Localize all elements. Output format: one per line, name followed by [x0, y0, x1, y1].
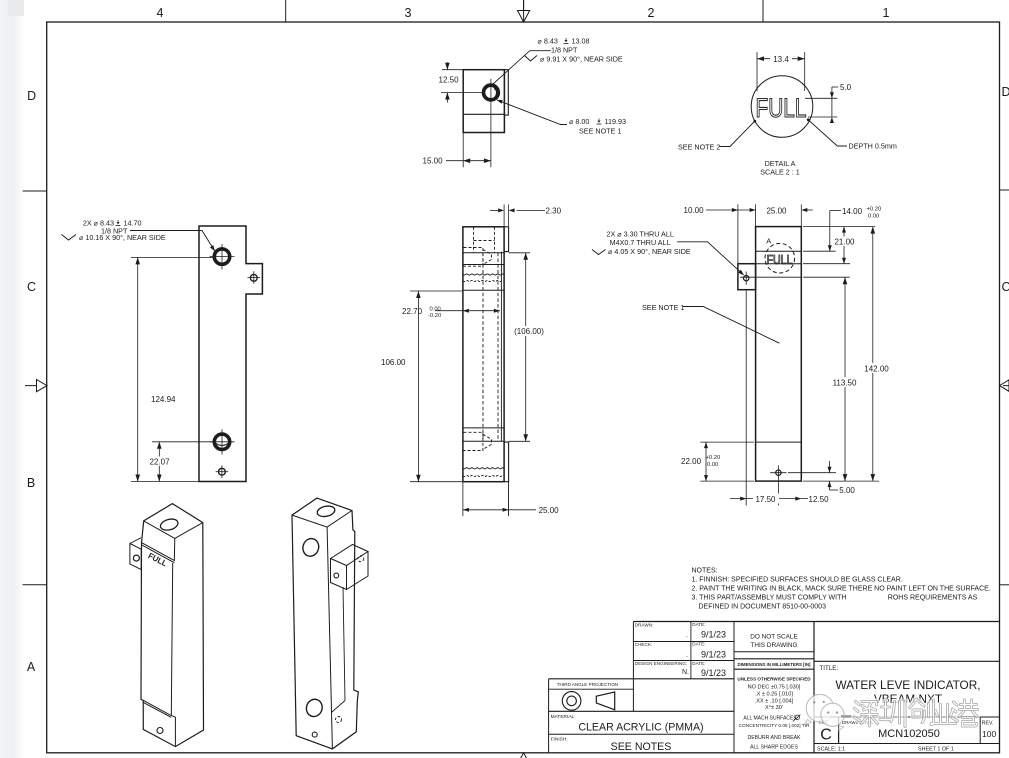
zone separator ticks left [23, 190, 47, 192]
svg-text:N.: N. [682, 669, 689, 676]
svg-text:9/1/23: 9/1/23 [701, 668, 726, 678]
svg-text:.XX ± .10 [.004]: .XX ± .10 [.004] [755, 698, 794, 704]
right view tab outline [738, 264, 756, 290]
svg-text:DATE:: DATE: [692, 641, 705, 646]
svg-text:100: 100 [982, 729, 996, 739]
svg-text:ALL SHARP EDGES: ALL SHARP EDGES [750, 745, 798, 751]
isometric view 1 window bottom edge [143, 700, 171, 715]
front view NPT hole bottom [214, 434, 229, 449]
svg-text:3: 3 [405, 6, 412, 20]
svg-text:1/8 NPT: 1/8 NPT [551, 46, 578, 55]
right view window bottom line [756, 441, 802, 443]
svg-text:MCN102050: MCN102050 [878, 728, 940, 740]
svg-text:⌀ 8.43: ⌀ 8.43 [538, 37, 558, 46]
title area lines [814, 660, 1000, 662]
watermark bubble eyes [813, 701, 815, 703]
zone separator ticks right [1000, 189, 1009, 191]
dimension 22.07 front view [152, 441, 213, 443]
isometric view 2 top face edges [292, 511, 352, 528]
right view recess top line [756, 250, 802, 252]
svg-text:DEFINED IN DOCUMENT 8510-00-00: DEFINED IN DOCUMENT 8510-00-0003 [699, 603, 827, 610]
title block row lines left [690, 622, 692, 679]
svg-text:2: 2 [648, 6, 655, 20]
svg-text:124.94: 124.94 [151, 395, 176, 404]
svg-text:1. FINNISH: SPECIFIED SURFACES: 1. FINNISH: SPECIFIED SURFACES SHOULD BE… [692, 576, 903, 583]
third angle projection circles symbol [562, 692, 581, 711]
svg-text:DESIGN ENGINEERING:: DESIGN ENGINEERING: [635, 661, 687, 666]
svg-text:X°± 30': X°± 30' [765, 705, 783, 711]
section view thread band bottom [463, 468, 504, 469]
svg-text:CHECK:: CHECK: [635, 642, 652, 647]
svg-text:+0.20: +0.20 [867, 206, 882, 212]
isometric view 1 side tab [130, 544, 141, 570]
section view hidden NPT cone top [464, 248, 483, 267]
dimension 113.50 right view [803, 276, 850, 278]
svg-text:M4X0.7 THRU ALL: M4X0.7 THRU ALL [610, 238, 671, 247]
svg-text:UNLESS OTHERWISE SPECIFIED: UNLESS OTHERWISE SPECIFIED [737, 676, 811, 681]
svg-text:22.00: 22.00 [681, 457, 702, 466]
countersink symbol top view [525, 56, 538, 62]
svg-text:CLEAR ACRYLIC (PMMA): CLEAR ACRYLIC (PMMA) [578, 722, 703, 734]
svg-text:21.00: 21.00 [834, 238, 855, 247]
svg-text:D: D [27, 89, 36, 103]
svg-text:TITLE:: TITLE: [820, 665, 839, 672]
svg-text:REV.: REV. [982, 721, 994, 727]
right view recess second line [756, 263, 802, 265]
front view small hole bottom [219, 468, 226, 475]
svg-text:SHEET 1 OF 1: SHEET 1 OF 1 [918, 746, 954, 752]
right view outline [756, 227, 802, 482]
svg-text:SEE NOTE 2: SEE NOTE 2 [678, 143, 720, 152]
section view window bottom edge [463, 440, 504, 442]
front view outline [199, 226, 262, 482]
svg-text:DIMENSIONS IN MILLIMETERS [IN]: DIMENSIONS IN MILLIMETERS [IN] [738, 662, 811, 667]
svg-text:13.4: 13.4 [773, 55, 789, 64]
svg-text:NOTES:: NOTES: [692, 567, 718, 574]
dimensions in millimeters box [734, 658, 814, 660]
dimension 22.70 tolerance section view [435, 310, 500, 312]
dimension 25.00 section view [462, 482, 464, 516]
svg-text:119.93: 119.93 [605, 117, 626, 126]
right view tab hole [744, 276, 749, 281]
front view NPT hole bottom centerlines [210, 441, 235, 443]
svg-text:⌀ 9.91 X 90°, NEAR SIDE: ⌀ 9.91 X 90°, NEAR SIDE [540, 55, 623, 64]
section view top boss line [463, 264, 504, 266]
section view hidden NPT cone bottom [464, 432, 483, 450]
svg-text:9/1/23: 9/1/23 [701, 630, 726, 640]
dimension 2.30 section view [503, 205, 505, 227]
svg-text:SCALE 2 : 1: SCALE 2 : 1 [760, 168, 800, 177]
isometric view 2 tab top face [331, 545, 369, 566]
dimension 17.50 right view [745, 291, 747, 506]
top view side plate [504, 70, 508, 115]
isometric view 2 tab front face [331, 559, 347, 590]
isometric view 2 outline [292, 498, 358, 749]
isometric view 2 tab right face [347, 552, 369, 590]
dimension 25.00 right view [755, 204, 757, 226]
svg-text:12.50: 12.50 [439, 76, 460, 85]
svg-text:5.0: 5.0 [840, 83, 852, 92]
callout leader NPT holes front view [130, 231, 215, 251]
left center mark arrow [25, 380, 47, 392]
svg-text:25.00: 25.00 [766, 207, 787, 216]
dimension 14.00 tolerance right view [803, 250, 836, 252]
dimension (106.00) section view [509, 252, 530, 254]
section view thread band top [463, 274, 504, 275]
svg-text:2.30: 2.30 [546, 207, 562, 216]
svg-text:15.00: 15.00 [423, 157, 444, 166]
svg-text:WATER LEVE INDICATOR,: WATER LEVE INDICATOR, [835, 678, 980, 692]
right view bottom hole [776, 470, 781, 475]
section view boss bottom line [463, 289, 504, 291]
svg-text:25.00: 25.00 [539, 506, 560, 515]
right center mark arrow [1000, 380, 1009, 392]
svg-text:⌀ 8.00: ⌀ 8.00 [569, 117, 589, 126]
isometric view 2 bottom NPT hole [304, 697, 324, 718]
svg-text:SEE NOTES: SEE NOTES [611, 741, 672, 753]
svg-text:0.00: 0.00 [868, 213, 879, 219]
watermark dash before text [841, 715, 852, 717]
svg-text:106.00: 106.00 [381, 358, 406, 367]
svg-text:DEPTH 0.5mm: DEPTH 0.5mm [849, 142, 897, 151]
svg-text:22.70: 22.70 [402, 307, 423, 316]
isometric view 2 window right edge [343, 587, 345, 701]
svg-text:.: . [686, 652, 688, 659]
svg-text:SEE NOTE 1: SEE NOTE 1 [579, 127, 621, 136]
svg-text:(106.00): (106.00) [514, 327, 544, 336]
isometric view 2 window bottom edge [332, 701, 345, 713]
top view hole horizontal centerline [441, 92, 485, 94]
svg-text:2. PAINT THE WRITING IN BLACK,: 2. PAINT THE WRITING IN BLACK, MACK SURE… [692, 585, 991, 592]
front view NPT hole top centerlines [210, 256, 235, 258]
isometric view 1 outline [141, 504, 204, 747]
svg-text:NO DEC ±0.75 [.030]: NO DEC ±0.75 [.030] [748, 684, 801, 690]
top view hole vertical centerline [490, 79, 492, 168]
svg-text:THIRD ANGLE PROJECTION: THIRD ANGLE PROJECTION [557, 682, 619, 687]
svg-text:⌀ 4.05 X 90°, NEAR SIDE: ⌀ 4.05 X 90°, NEAR SIDE [608, 247, 691, 256]
isometric view 1 tab hole [133, 555, 139, 561]
watermark chinese text strokes [854, 699, 978, 727]
dimension 106.00 section view [410, 290, 462, 292]
watermark wechat bubble small [821, 703, 844, 726]
svg-text:FULL: FULL [767, 253, 793, 267]
isometric view 2 top hole ellipse [316, 505, 335, 518]
svg-text:FINISH:: FINISH: [551, 737, 568, 743]
dimension 124.94 front view [131, 256, 213, 258]
leader DEPTH 0.5mm detail A [808, 120, 847, 147]
svg-text:13.08: 13.08 [572, 37, 590, 46]
dimension 13.4 detail A [756, 52, 758, 91]
svg-text:⌀ 10.16 X 90°, NEAR SIDE: ⌀ 10.16 X 90°, NEAR SIDE [79, 233, 166, 242]
countersink symbol right view [592, 250, 606, 255]
detail A source circle FULL [765, 243, 795, 273]
callout leader M4 holes right view [677, 242, 744, 275]
svg-text:THIS DRAWING: THIS DRAWING [751, 642, 798, 649]
svg-text:DATE:: DATE: [692, 661, 705, 666]
section view outline [463, 227, 504, 482]
svg-text:A: A [766, 237, 771, 246]
isometric view 1 top hole ellipse [159, 517, 179, 532]
isometric view 2 top NPT hole [301, 537, 321, 559]
section view hidden thread bore top [473, 227, 475, 253]
dimension 142.00 right view [803, 226, 875, 228]
leader SEE NOTE 2 detail A [720, 122, 755, 147]
svg-text:ALL MACH SURFACES: ALL MACH SURFACES [743, 715, 797, 721]
svg-text:MATERIAL:: MATERIAL: [551, 714, 576, 720]
section view cover plate bottom [504, 442, 509, 482]
dimension 5.00 right view [788, 472, 836, 474]
top view step line [463, 113, 504, 115]
dimension 21.00 right view [803, 263, 850, 265]
isometric view 2 bottom small hole [312, 732, 317, 737]
dimension 10.00 right view [737, 204, 739, 263]
svg-text:ROHS REQUIREMENTS AS: ROHS REQUIREMENTS AS [888, 594, 978, 601]
svg-text:+0.20: +0.20 [706, 455, 721, 461]
isometric view 2 front edge [327, 527, 332, 749]
svg-text:5.00: 5.00 [839, 486, 855, 495]
svg-text:CONCENTRICITY 0.05 [.002] TIR: CONCENTRICITY 0.05 [.002] TIR [739, 723, 810, 728]
svg-text:C: C [27, 280, 36, 294]
detail A circle [751, 76, 813, 138]
svg-text:142.00: 142.00 [864, 365, 889, 374]
callout leader NPT port top view [493, 51, 551, 85]
right view tab hole centerline horizontal [740, 276, 801, 278]
isometric view 2 tab front hole [334, 573, 339, 578]
svg-text:1: 1 [883, 6, 890, 20]
svg-text:0.00: 0.00 [707, 462, 718, 468]
front view NPT hole top [214, 249, 229, 264]
dimension 22.00 tolerance right view [700, 441, 754, 443]
bottom center mark arrow [518, 753, 530, 758]
leader SEE NOTE 1 right view [683, 307, 780, 344]
dimension 15.00 top view [462, 133, 464, 168]
svg-text:3. THIS PART/ASSEMBLY MUST COM: 3. THIS PART/ASSEMBLY MUST COMPLY WITH [692, 594, 847, 601]
section view inner plate line [500, 252, 502, 442]
svg-text:DRAWN:: DRAWN: [635, 622, 653, 627]
front view NPT hole bottom thread arc [216, 443, 228, 445]
dimension 5.0 detail A [805, 97, 837, 99]
isometric view 1 front right edge upper [173, 538, 176, 561]
svg-text:9/1/23: 9/1/23 [701, 649, 726, 659]
svg-text:22.07: 22.07 [150, 458, 171, 467]
front view tab hole top [250, 274, 257, 281]
isometric view 2 tab hidden hole [358, 556, 364, 562]
svg-text:113.50: 113.50 [833, 379, 857, 388]
svg-text:17.50: 17.50 [755, 495, 776, 504]
section view cover plate top [504, 227, 509, 252]
section view window top edge [463, 252, 504, 254]
watermark wechat bubble large [805, 694, 978, 730]
dimension 12.50 top view [442, 69, 463, 71]
isometric view 1 bottom block front edge [171, 715, 176, 746]
title block outer lines [633, 621, 1000, 623]
third angle projection cone symbol [596, 692, 614, 710]
top view NPT port hole [484, 85, 499, 100]
svg-text:DO NOT SCALE: DO NOT SCALE [750, 634, 797, 641]
isometric view 2 hidden hole bottom [336, 717, 342, 723]
svg-text:0.00: 0.00 [430, 307, 441, 313]
countersink symbol front view [62, 235, 77, 241]
svg-text:.: . [686, 632, 688, 639]
svg-text:SEE NOTE 1: SEE NOTE 1 [642, 303, 684, 312]
svg-text:C: C [1001, 280, 1009, 294]
svg-text:FULL: FULL [756, 93, 807, 123]
svg-text:-0.20: -0.20 [428, 313, 441, 319]
svg-text:.X ± 0.25 [.010]: .X ± 0.25 [.010] [755, 691, 793, 697]
svg-text:C: C [820, 727, 832, 744]
svg-text:D: D [1001, 85, 1009, 99]
section view hidden bore lines [482, 253, 484, 441]
top center mark arrow [518, 0, 530, 22]
callout leader bore hole top view [497, 100, 567, 125]
isometric view 1 cap band lower [142, 545, 175, 563]
section view bottom boss top line [463, 427, 504, 429]
svg-text:14.00: 14.00 [842, 207, 863, 216]
svg-text:DATE:: DATE: [692, 622, 705, 627]
top view body outline [463, 70, 504, 133]
do not scale box [734, 651, 814, 653]
svg-text:B: B [27, 476, 35, 490]
isometric view 1 top face edges [144, 521, 203, 539]
svg-text:4: 4 [157, 6, 164, 20]
svg-text:12.50: 12.50 [809, 495, 830, 504]
isometric view 1 bottom hole [157, 728, 163, 734]
isometric view 1 cap band upper [142, 543, 175, 561]
zone separator ticks top [285, 0, 287, 22]
svg-text:SCALE: 1:1: SCALE: 1:1 [817, 746, 845, 752]
svg-text:10.00: 10.00 [684, 206, 705, 215]
svg-text:A: A [27, 660, 36, 674]
isometric view 1 window right edge [171, 563, 172, 715]
svg-text:DEBURR AND BREAK: DEBURR AND BREAK [747, 735, 801, 741]
